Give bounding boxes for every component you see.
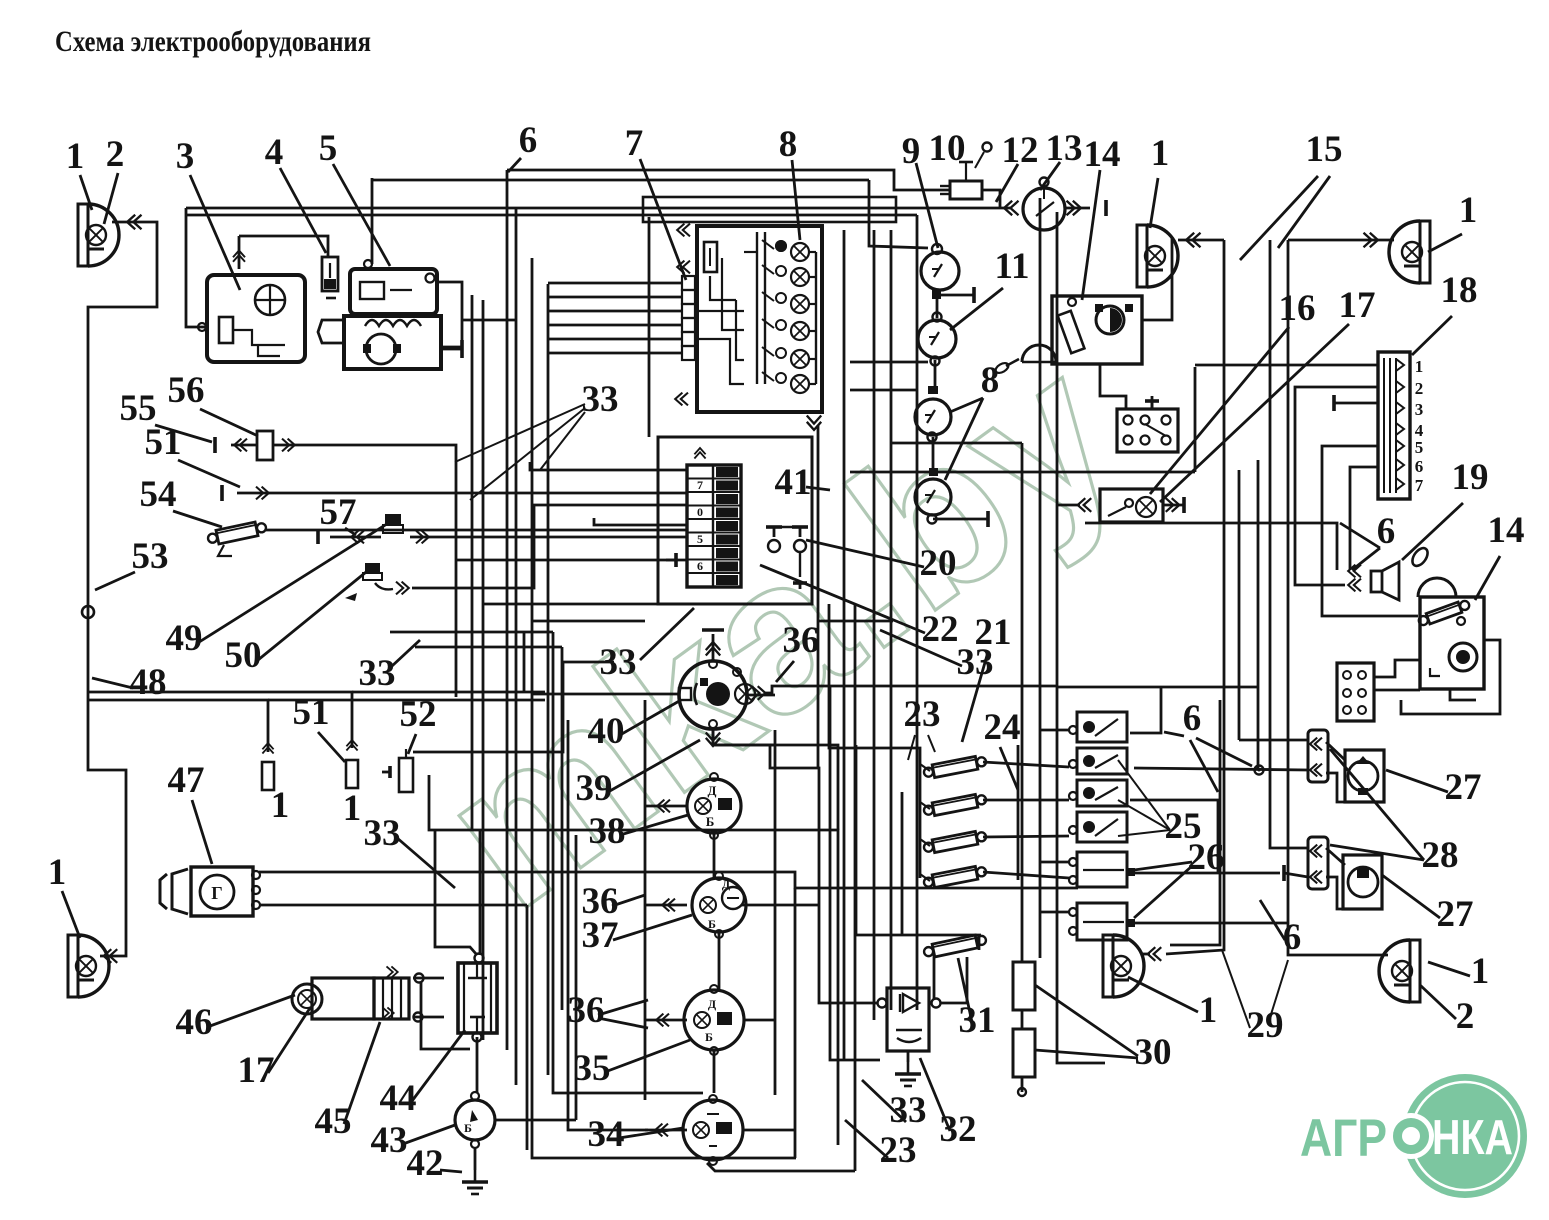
chevron [1348, 565, 1361, 578]
chevron [1004, 201, 1018, 215]
gauge 38 [687, 779, 741, 833]
leader [806, 487, 830, 490]
wire [764, 686, 1057, 693]
leader [612, 895, 645, 906]
wire [530, 462, 687, 470]
switch 20 [766, 527, 782, 537]
wire [648, 217, 651, 437]
wire [1322, 446, 1418, 616]
wire [941, 957, 967, 1003]
wire [1284, 873, 1308, 877]
svg-text:22: 22 [922, 609, 959, 650]
wire [259, 904, 527, 907]
relay 43 [455, 1100, 495, 1140]
wire [1238, 470, 1241, 740]
relay 26a [1077, 852, 1127, 887]
terminal [973, 287, 976, 303]
connector 52 [399, 758, 413, 792]
wire [1326, 877, 1363, 909]
connector strip [682, 276, 695, 290]
chevron 51 [256, 487, 269, 500]
svg-text:56: 56 [168, 370, 205, 411]
wire [186, 207, 1010, 210]
gauge 8a [915, 399, 951, 435]
leader [598, 1000, 648, 1015]
wire [1040, 729, 1069, 732]
gauge 11 [918, 320, 956, 358]
chevron [1078, 498, 1092, 512]
svg-text:38: 38 [589, 811, 626, 852]
cluster inner wiring [710, 276, 736, 300]
wire [815, 252, 817, 384]
wire [873, 230, 876, 1020]
wire [479, 830, 482, 955]
leader [996, 164, 1018, 202]
svg-text:24: 24 [984, 707, 1021, 748]
wire [933, 954, 936, 1000]
wire [1178, 239, 1224, 242]
chevron [104, 949, 118, 963]
wire [1130, 872, 1280, 875]
svg-text:18: 18 [1441, 270, 1478, 311]
svg-text:15: 15 [1306, 129, 1343, 170]
wire [1350, 467, 1378, 570]
headlamp 1 right-mid [1137, 225, 1147, 287]
svg-text:5: 5 [697, 532, 703, 546]
svg-text:39: 39 [576, 768, 613, 809]
switch 16/17 [1100, 489, 1163, 522]
leader [344, 1022, 380, 1124]
svg-text:14: 14 [1084, 134, 1121, 175]
wire [817, 425, 820, 768]
wire [869, 180, 928, 248]
relay stack 25 [1077, 712, 1127, 742]
leader [962, 652, 988, 742]
leader [80, 175, 92, 210]
svg-text:0: 0 [697, 505, 703, 519]
wire [713, 833, 716, 878]
svg-text:6: 6 [697, 559, 703, 573]
relay block b [1337, 663, 1374, 721]
svg-text:Д: Д [722, 877, 731, 891]
wire [1065, 207, 1090, 210]
leader [1260, 900, 1285, 940]
terminal 28b [1283, 865, 1286, 881]
motor 27a [1345, 750, 1384, 802]
wire [744, 1019, 775, 1022]
wire [1040, 861, 1069, 864]
leader [258, 568, 371, 660]
leader [333, 164, 390, 266]
chevron [706, 642, 720, 656]
leader [396, 837, 455, 888]
wire [891, 442, 1022, 445]
wire [1057, 212, 1105, 1063]
starter relay block [344, 316, 441, 369]
gauge 8b [915, 479, 951, 515]
svg-text:10: 10 [929, 128, 966, 169]
wire [1194, 367, 1197, 472]
wire [437, 282, 462, 347]
ground near 41 [666, 553, 676, 567]
wire [644, 700, 647, 1100]
connector pin 50 [346, 760, 358, 788]
chevron [1166, 498, 1180, 512]
leader [1150, 327, 1289, 494]
chevron [233, 251, 245, 262]
wire [462, 319, 516, 322]
svg-text:52: 52 [400, 694, 437, 735]
wire [548, 296, 682, 299]
leader [210, 995, 295, 1026]
wire [482, 300, 485, 1040]
ammeter 9 [921, 252, 959, 290]
wire [421, 982, 470, 1049]
svg-text:33: 33 [364, 813, 401, 854]
svg-text:Б: Б [708, 917, 716, 931]
gauge 13 [1023, 188, 1065, 230]
wire [88, 222, 157, 956]
svg-text:1: 1 [343, 788, 362, 829]
svg-text:19: 19 [1452, 457, 1489, 498]
svg-text:23: 23 [880, 1130, 917, 1171]
logo АГРО НКА [1300, 1074, 1527, 1198]
headlamp bottom-center [1103, 935, 1113, 997]
node 53 [82, 606, 94, 618]
chevron [1348, 579, 1361, 592]
wire [645, 904, 687, 907]
svg-text:Г: Г [211, 883, 222, 903]
svg-text:1: 1 [1415, 357, 1424, 376]
wire [88, 700, 268, 752]
heater unit 14 [1052, 296, 1142, 364]
svg-text:6: 6 [1377, 511, 1396, 552]
svg-text:26: 26 [1188, 837, 1225, 878]
leader [950, 398, 983, 412]
svg-text:28: 28 [1422, 835, 1459, 876]
wire [855, 745, 858, 935]
wire [476, 1037, 479, 1093]
svg-text:5: 5 [319, 128, 338, 169]
leader [792, 160, 800, 240]
svg-text:32: 32 [940, 1109, 977, 1150]
left bracket [318, 320, 344, 343]
svg-text:33: 33 [582, 379, 619, 420]
svg-text:4: 4 [265, 132, 284, 173]
wire [713, 1050, 716, 1093]
leader [280, 168, 326, 253]
fuse box 18 [1378, 352, 1410, 499]
connector 28b [1308, 837, 1328, 889]
leader [613, 915, 692, 940]
svg-text:30: 30 [1135, 1032, 1172, 1073]
wire [259, 872, 1078, 888]
wire [1163, 504, 1184, 507]
leader [1000, 747, 1018, 790]
wire [413, 977, 444, 980]
terminal [987, 511, 990, 527]
wire [1142, 953, 1150, 956]
wire [936, 295, 939, 318]
svg-text:7: 7 [625, 123, 644, 164]
svg-text:1: 1 [271, 785, 290, 826]
chevron [1364, 233, 1378, 247]
wire [770, 745, 838, 830]
wire [818, 620, 893, 623]
connector block 41 [687, 465, 741, 587]
svg-text:2: 2 [106, 134, 125, 175]
wire [553, 632, 703, 1093]
leader [200, 409, 258, 436]
svg-text:35: 35 [574, 1048, 611, 1089]
leader [1128, 977, 1198, 1012]
svg-text:57: 57 [320, 492, 357, 533]
svg-text:12: 12 [1002, 130, 1039, 171]
wire [1245, 251, 1248, 254]
leader [345, 528, 356, 535]
wire [532, 620, 645, 623]
wire [238, 236, 241, 269]
chevron [396, 582, 409, 595]
headlamp bottom-left [68, 935, 78, 997]
wire [575, 835, 578, 1120]
svg-text:54: 54 [140, 474, 177, 515]
svg-text:36: 36 [783, 620, 820, 661]
wire 56 [273, 445, 456, 697]
wire [506, 170, 509, 1050]
wire [268, 699, 545, 702]
wire 57 [410, 536, 687, 539]
chevron [675, 393, 688, 406]
leader [640, 159, 686, 280]
wire [901, 792, 904, 935]
svg-text:27: 27 [1445, 767, 1482, 808]
leader [1428, 962, 1470, 976]
wire [907, 1051, 910, 1062]
wire [707, 1163, 855, 1171]
svg-text:33: 33 [359, 653, 396, 694]
wire [890, 230, 893, 1010]
leader [155, 425, 212, 442]
connector 57 [385, 514, 401, 525]
chevron 56l [234, 439, 247, 452]
svg-text:34: 34 [588, 1114, 625, 1155]
chevron [656, 1014, 669, 1027]
svg-text:АГР: АГР [1300, 1109, 1387, 1168]
leader [392, 640, 420, 666]
svg-text:53: 53 [132, 536, 169, 577]
horn 19 [1371, 571, 1382, 592]
terminal 55 [214, 437, 217, 453]
svg-text:14: 14 [1488, 510, 1525, 551]
svg-text:3: 3 [1415, 400, 1424, 419]
wire [547, 284, 550, 1075]
wire [983, 799, 1069, 802]
gauge 34 [683, 1100, 743, 1160]
svg-text:1: 1 [48, 852, 67, 893]
svg-text:1: 1 [66, 136, 85, 177]
block 41 outer [658, 437, 812, 604]
wire [932, 437, 935, 472]
chevron 57r [416, 531, 429, 544]
gauge 35 [684, 990, 744, 1050]
wire [1100, 364, 1126, 409]
connector 28a [1308, 730, 1328, 782]
motor 27b [1343, 855, 1382, 909]
fuse bracket 23 [904, 748, 920, 878]
leader [1040, 162, 1060, 190]
flasher 14 bottom-right [1420, 597, 1484, 689]
svg-text:6: 6 [1283, 917, 1302, 958]
wire [830, 687, 880, 1060]
wire [1257, 460, 1260, 770]
svg-text:47: 47 [168, 760, 205, 801]
chevron [677, 224, 690, 237]
leader [920, 1058, 950, 1131]
wire [1270, 240, 1308, 848]
wire [1166, 240, 1224, 954]
leader [440, 1170, 462, 1172]
diode block 32 [887, 988, 929, 1051]
chevron [752, 686, 766, 700]
wire 54 [266, 529, 687, 532]
leader [776, 661, 794, 682]
wire [850, 389, 918, 392]
svg-text:Схема электрооборудования: Схема электрооборудования [55, 25, 371, 58]
svg-text:2: 2 [1415, 379, 1424, 398]
connector 50b [365, 563, 380, 573]
wire [1134, 768, 1308, 770]
svg-text:16: 16 [1279, 288, 1316, 329]
wire [747, 694, 775, 697]
leader [1222, 950, 1250, 1028]
wire [713, 729, 775, 745]
svg-text:Б: Б [705, 1030, 713, 1044]
terminal 51 [221, 485, 224, 501]
wire [1288, 239, 1394, 242]
svg-text:36: 36 [568, 990, 605, 1031]
wire [507, 170, 950, 190]
wire 52 [429, 775, 838, 1145]
leader [1475, 556, 1500, 600]
wire [850, 361, 928, 364]
wire bus [643, 197, 896, 222]
svg-text:50: 50 [225, 635, 262, 676]
battery 44 [458, 963, 497, 1033]
leader [1150, 178, 1158, 228]
relay 5 [350, 269, 437, 314]
wire node [1258, 769, 1261, 772]
wire [1021, 1010, 1024, 1028]
wire [713, 729, 878, 1003]
svg-text:51: 51 [145, 422, 182, 463]
lamp 46 [292, 984, 322, 1014]
wire [1326, 773, 1363, 802]
svg-text:49: 49 [166, 618, 203, 659]
wire [548, 282, 682, 285]
leader [862, 1080, 906, 1122]
chevron [1148, 947, 1162, 961]
wire [983, 872, 1069, 878]
wire [1021, 1077, 1024, 1092]
leader [1402, 503, 1463, 560]
wire [484, 603, 658, 606]
svg-text:20: 20 [920, 543, 957, 584]
wire [1130, 687, 1161, 733]
chevron 56r [282, 439, 295, 452]
wire [1170, 700, 1220, 945]
leader [950, 288, 1003, 330]
svg-text:40: 40 [588, 711, 625, 752]
leader [1352, 548, 1380, 570]
leader [196, 522, 390, 644]
svg-text:Д: Д [708, 783, 717, 798]
fuses 23 [932, 756, 978, 777]
leader [1082, 170, 1100, 300]
leader [1428, 234, 1462, 252]
wire [594, 518, 687, 525]
svg-text:41: 41 [775, 462, 812, 503]
leader [620, 700, 681, 735]
leader [95, 572, 135, 590]
leader [1420, 985, 1456, 1019]
svg-text:6: 6 [1183, 698, 1202, 739]
wire [532, 258, 796, 1158]
wire [186, 214, 917, 217]
svg-text:51: 51 [293, 692, 330, 733]
leader [508, 158, 521, 172]
svg-text:23: 23 [904, 694, 941, 735]
svg-text:42: 42 [407, 1143, 444, 1184]
svg-text:Д: Д [708, 997, 717, 1011]
leader [608, 740, 700, 792]
svg-text:37: 37 [582, 915, 619, 956]
wire [1334, 402, 1378, 405]
chevron [127, 215, 141, 229]
wire [561, 647, 564, 1010]
leader [1164, 732, 1184, 736]
wire [916, 215, 919, 1010]
wire [1326, 742, 1345, 760]
chevron [662, 899, 675, 912]
wire [441, 348, 462, 351]
leader [1118, 760, 1170, 830]
wire [856, 934, 981, 937]
plug 10 [950, 181, 982, 199]
wire [978, 937, 981, 950]
wire [854, 604, 857, 1171]
wire [88, 692, 352, 748]
svg-text:29: 29 [1247, 1005, 1284, 1046]
leader [318, 732, 345, 762]
leader [408, 734, 416, 754]
wire [1374, 689, 1420, 692]
svg-text:1: 1 [1459, 190, 1478, 231]
svg-text:48: 48 [130, 662, 167, 703]
wire [415, 646, 562, 649]
svg-text:46: 46 [176, 1002, 213, 1043]
wire [1057, 504, 1080, 507]
leader [620, 815, 688, 835]
wire [741, 904, 818, 907]
comp 54 [216, 522, 258, 544]
wire [526, 905, 529, 1150]
leader [1134, 862, 1192, 870]
wire [371, 178, 374, 264]
wire [940, 294, 974, 297]
svg-text:7: 7 [1415, 476, 1424, 495]
svg-text:1: 1 [1471, 951, 1490, 992]
